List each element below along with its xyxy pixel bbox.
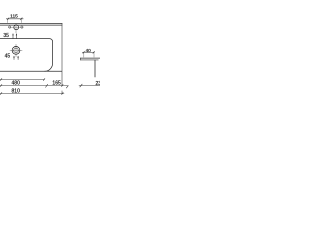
dimension 115 right arrow slash bbox=[20, 18, 22, 20]
faucet left small hole bbox=[9, 26, 11, 28]
side view front vertical bbox=[94, 60, 96, 77]
row C right slash bbox=[62, 92, 64, 94]
side dimension 40 line bbox=[82, 51, 95, 53]
side 40 left extension bbox=[83, 53, 85, 57]
side view top surface line bbox=[80, 57, 100, 59]
drain vertical center line bbox=[15, 44, 17, 57]
counter top edge upper line bbox=[0, 22, 62, 24]
row A left slash bbox=[0, 78, 2, 80]
svg-text:235: 235 bbox=[96, 81, 101, 87]
faucet right small hole bbox=[21, 26, 23, 28]
side 40 left slash bbox=[83, 51, 85, 53]
counter top edge lower line bbox=[0, 24, 62, 26]
dimension 115 right extension line bbox=[21, 19, 23, 23]
drain inner circle bbox=[14, 48, 19, 53]
faucet hole circle bbox=[14, 25, 19, 30]
faucet vertical center line bbox=[15, 23, 17, 33]
dimension row A line 480 bbox=[0, 79, 45, 81]
side 40 right slash bbox=[93, 51, 95, 53]
row B left slash bbox=[0, 84, 2, 86]
basin outline rounded bbox=[0, 39, 53, 72]
row A right slash bbox=[43, 78, 45, 80]
dimension row C line 810 bbox=[0, 93, 64, 95]
side view left cap bbox=[79, 58, 81, 61]
dimension 45 left up-arrow bbox=[13, 56, 14, 58]
side view bottom line bbox=[80, 59, 98, 61]
counter bottom edge bbox=[0, 70, 62, 72]
dimension 35 right up-arrow bbox=[16, 33, 17, 35]
drain outer circle bbox=[12, 47, 20, 55]
svg-text:810: 810 bbox=[12, 88, 21, 94]
svg-text:40: 40 bbox=[86, 48, 92, 54]
svg-text:45: 45 bbox=[5, 53, 11, 59]
row C left slash bbox=[0, 92, 2, 94]
svg-text:165: 165 bbox=[52, 81, 61, 87]
dimension 115 left extension line bbox=[6, 19, 8, 23]
side bottom left slash bbox=[80, 84, 83, 87]
dimension 45 right up-arrow bbox=[17, 56, 18, 58]
dimension 115 left arrow slash bbox=[7, 18, 9, 20]
background bbox=[0, 0, 100, 100]
side bottom dimension line bbox=[79, 85, 100, 87]
dimension 35 left up-arrow bbox=[12, 33, 13, 35]
counter right edge bbox=[61, 23, 63, 86]
svg-text:35: 35 bbox=[3, 33, 9, 39]
drain horizontal center line bbox=[10, 49, 22, 51]
row B right slash bbox=[66, 85, 68, 88]
faucet horizontal center line bbox=[8, 26, 23, 28]
row C small tick bbox=[45, 84, 47, 87]
dimension 115 line bbox=[6, 18, 23, 20]
side 40 right extension bbox=[93, 53, 95, 57]
row B slash at counter edge bbox=[61, 84, 63, 86]
dimension row B line 165 bbox=[0, 85, 68, 87]
